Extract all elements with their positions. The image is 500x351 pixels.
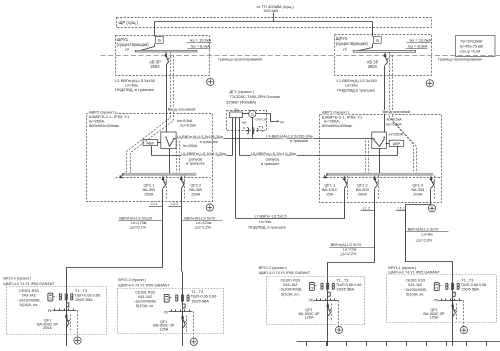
current transformers T1..T3 ВРУ2.4 [59, 293, 61, 300]
ground mark at ЩРУ2 corner [426, 80, 433, 87]
svg-text:Пi: Пi [158, 39, 162, 43]
circuit breaker QF2.1 [162, 176, 167, 188]
svg-text:ВВГнг(А)-LS 5х70: ВВГнг(А)-LS 5х70 [331, 243, 362, 247]
circuit breaker QF1 ВРУ1.1 [452, 303, 457, 317]
wire from TP down to ЩР bus [273, 13, 275, 22]
svg-text:СЕ301 R33: СЕ301 R33 [135, 290, 155, 294]
svg-text:043-JAZ: 043-JAZ [22, 294, 37, 298]
panel АВР2 dashed enclosure [87, 114, 213, 202]
ground mark at АВР2 corner [206, 204, 213, 211]
svg-text:Тр: Тр [235, 108, 239, 112]
svg-text:L2 ВВГнг(А)-LS 5х150: L2 ВВГнг(А)-LS 5х150 [115, 78, 156, 83]
svg-text:125А: 125А [305, 316, 314, 320]
svg-text:Пi: Пi [49, 296, 52, 300]
title block divider 5 [386, 342, 388, 347]
svg-text:ТШП-0,66 0,66: ТШП-0,66 0,66 [336, 283, 362, 287]
PE conductor dashed ЩРУ2 [393, 56, 417, 173]
svg-text:125А: 125А [159, 327, 168, 331]
ДГУ start wire stub left [232, 118, 234, 156]
feeder wire QF2.2 to ВРУ2.3 [182, 189, 183, 347]
ground electrode ВРУ1.1 [460, 327, 467, 334]
title block divider 6 [406, 342, 408, 347]
N conductor dashed ЩРУ2 [390, 53, 414, 173]
svg-text:25А: 25А [326, 192, 333, 197]
panel ВРУ1.1 dashed enclosure [387, 275, 497, 323]
current transformers T1..T3 ВРУ1.2 [320, 283, 322, 290]
svg-text:~3х230/400В,: ~3х230/400В, [279, 288, 303, 292]
svg-text:АВР: АВР [393, 142, 401, 146]
svg-text:250А: 250А [368, 64, 378, 69]
svg-text:5(10)А, кл.: 5(10)А, кл. [406, 292, 424, 296]
ЩР bus wire [155, 21, 373, 23]
svg-text:Пi: Пi [311, 286, 314, 290]
title block divider 2 [326, 342, 328, 347]
svg-text:5(10)А, кл.: 5(10)А, кл. [136, 304, 154, 308]
svg-text:800х600х300мм.: 800х600х300мм. [89, 123, 120, 128]
svg-text:800х600х300мм.: 800х600х300мм. [322, 123, 353, 128]
svg-text:ВВГнг(А)-LS 5х70: ВВГнг(А)-LS 5х70 [184, 217, 215, 221]
svg-text:△U=2,2%: △U=2,2% [340, 252, 357, 256]
changeover switch QS АВР1 [372, 132, 387, 149]
svg-text:ВРУ2.3 (проект.): ВРУ2.3 (проект.) [118, 278, 146, 282]
title block divider 10 [486, 342, 488, 347]
svg-text:(существующая): (существующая) [117, 42, 150, 47]
N/PE dashed bus АВР1 [323, 177, 441, 179]
PE down conductor ВРУ2.3 [193, 312, 195, 339]
generator G1 [249, 110, 256, 117]
svg-text:200А: 200А [43, 326, 52, 330]
svg-text:150/5 5ВА: 150/5 5ВА [461, 288, 479, 292]
title block divider 7 [426, 342, 428, 347]
circuit breaker QF2.2 [180, 176, 185, 188]
svg-text:Iкз=6,5кА: Iкз=6,5кА [386, 122, 402, 126]
ground mark at ЩРУ1 corner [207, 78, 214, 85]
svg-text:Ввод основной: Ввод основной [168, 107, 196, 112]
svg-text:250А: 250А [191, 192, 200, 197]
svg-text:~3х230/400В,: ~3х230/400В, [17, 298, 41, 302]
PE down conductor ВРУ1.1 [463, 301, 465, 327]
svg-text:Пi: Пi [435, 286, 438, 290]
svg-text:200А: 200А [413, 192, 422, 197]
svg-text:ЩМП-4-0 74 У1 IP65 GARANT: ЩМП-4-0 74 У1 IP65 GARANT [259, 271, 311, 275]
svg-text:L5-КВВГнг-LS 10х1,5-30м,: L5-КВВГнг-LS 10х1,5-30м, [251, 152, 297, 156]
reserve N dashed АВР1 [365, 141, 367, 173]
reserve N dashed АВР2 [176, 141, 178, 173]
feeder wire QF1.2 to ВРУ1.2 [328, 189, 375, 347]
svg-text:125А: 125А [429, 316, 438, 320]
svg-text:Iн=250А: Iн=250А [389, 131, 404, 136]
svg-text:ЩМП-4-0 74 У1 IP65 GARANT: ЩМП-4-0 74 У1 IP65 GARANT [118, 284, 170, 288]
excitation cluster [247, 128, 249, 134]
svg-text:Т1...Т3: Т1...Т3 [461, 278, 473, 282]
main switch ГР ЩРУ2 [355, 48, 373, 52]
test terminal ВРУ1.2 [328, 292, 331, 296]
svg-text:ЩМП-4-0 74 У1 IP65 GARANT: ЩМП-4-0 74 У1 IP65 GARANT [388, 271, 440, 275]
svg-text:ТЭ-328С-Т400-2РН Doosan: ТЭ-328С-Т400-2РН Doosan [230, 94, 281, 99]
svg-text:Iкз = 8,9кА: Iкз = 8,9кА [408, 43, 428, 48]
svg-text:ВВГнг(А)-LS 5х120: ВВГнг(А)-LS 5х120 [119, 217, 152, 221]
svg-text:Lн=72м: Lн=72м [343, 248, 357, 252]
switch output wire to busbar АВР1 [379, 149, 381, 174]
panel ЩРУ2 dashed enclosure [335, 35, 432, 76]
switch output wire to busbar АВР2 [169, 149, 171, 174]
meter box Пi ВРУ2.4 [48, 293, 53, 301]
svg-text:PE: PE [48, 309, 52, 313]
svg-text:L1-ВВГнг(А)-LS 5х150: L1-ВВГнг(А)-LS 5х150 [337, 78, 378, 83]
wire drop from ЩР bus to ЩРУ2 [372, 22, 374, 37]
svg-text:(существующая): (существующая) [336, 41, 369, 46]
svg-text:СЕ301 R33: СЕ301 R33 [405, 279, 425, 283]
svg-text:PE: PE [434, 299, 438, 303]
svg-text:L7-ВВГнг-LS 5х2,5: L7-ВВГнг-LS 5х2,5 [255, 215, 287, 219]
svg-text:△U=0,1%: △U=0,1% [130, 226, 147, 230]
feeder wire QF1.3 to ВРУ1.1 [406, 189, 453, 347]
meter box Пi ВРУ1.2 [309, 283, 314, 291]
N conductor dashed ЩРУ1 [127, 53, 171, 173]
svg-text:200А: 200А [358, 192, 367, 197]
svg-text:в траншее: в траншее [290, 139, 308, 143]
svg-text:Iкз=9,5кА: Iкз=9,5кА [177, 119, 193, 123]
svg-text:043-JAZ: 043-JAZ [138, 295, 153, 299]
wire АВР box to switch АВР1 [386, 143, 390, 145]
wire meter to switch ЩРУ1 [154, 44, 156, 47]
wire АВР box to start cable L5 [397, 147, 399, 156]
circuit breaker QF1.2 [374, 176, 379, 188]
svg-text:5(10)А, кл.: 5(10)А, кл. [20, 303, 38, 307]
svg-text:Lн=175м: Lн=175м [131, 221, 147, 225]
panel ВРУ2.3 dashed enclosure [118, 289, 224, 334]
svg-text:в траншее: в траншее [186, 162, 204, 166]
svg-text:043-JAZ: 043-JAZ [283, 283, 298, 287]
svg-text:ТШП-0,66 0,66: ТШП-0,66 0,66 [74, 294, 100, 298]
svg-text:ЩМП-4-0 74 У1 IP66 GARANT: ЩМП-4-0 74 У1 IP66 GARANT [3, 282, 55, 286]
svg-text:ОПН-0,66: ОПН-0,66 [255, 118, 267, 121]
circuit breaker QF1 ВРУ1.2 [327, 303, 332, 317]
svg-text:PE: PE [164, 310, 168, 314]
svg-text:Iн=250А: Iн=250А [183, 143, 198, 148]
generator output wire down [252, 118, 254, 139]
wire L7 from QF1.1 to ДГУ heater [236, 189, 345, 219]
svg-text:L1.2: L1.2 [363, 206, 370, 210]
svg-text:СЕ301 R33: СЕ301 R33 [280, 279, 300, 283]
svg-text:Т1...Т3: Т1...Т3 [191, 290, 203, 294]
test terminal ВРУ2.3 [183, 304, 186, 308]
panel ЩР (сущ.) dashed enclosure [117, 18, 432, 28]
title block top border [297, 341, 500, 343]
ДГУ dashed enclosure [227, 111, 267, 131]
ДГУ feeder wire down to L7 [235, 118, 237, 219]
svg-text:Пi: Пi [165, 298, 168, 302]
svg-text:ЩР (сущ.): ЩР (сущ.) [119, 20, 139, 25]
current transformers T1..T3 ВРУ1.1 [445, 283, 447, 290]
circuit breaker QF1 ВРУ2.4 [65, 313, 70, 327]
busbar АВР2 [122, 173, 196, 175]
svg-text:Пi: Пi [376, 39, 380, 43]
busbar АВР1 [327, 173, 434, 175]
svg-text:Iкз = 10,6кА: Iкз = 10,6кА [409, 38, 431, 43]
title block divider 1 [306, 342, 308, 347]
test terminal ВРУ2.4 [66, 303, 69, 307]
svg-text:Lн=8м: Lн=8м [422, 232, 434, 236]
busbar ЩРУ1 [136, 50, 198, 52]
АВР control box АВР1 [389, 140, 404, 146]
wire G neutral to 0V [256, 114, 277, 122]
svg-text:в траншее: в траншее [200, 140, 218, 144]
svg-text:Lн=30м.: Lн=30м. [259, 220, 272, 224]
panel ВРУ2.4 dashed enclosure [7, 287, 107, 335]
meter box Пi ВРУ1.1 [434, 283, 439, 291]
circuit breaker АВ 3Р 250А ЩРУ1 [165, 52, 170, 65]
svg-text:Ввод основной: Ввод основной [383, 109, 411, 114]
panel ВРУ1.2 dashed enclosure [267, 277, 365, 325]
panel АВР1 dashed enclosure [320, 115, 442, 203]
svg-text:△U=2,3%: △U=2,3% [416, 239, 433, 243]
title block divider 4 [366, 342, 368, 347]
wire meter to switch ЩРУ2 [372, 44, 374, 48]
svg-text:L6-КВВГнг-LS 10х1,5-30м: L6-КВВГнг-LS 10х1,5-30м [181, 152, 226, 156]
meter PI ЩРУ2 [374, 37, 382, 44]
svg-text:0V: 0V [280, 121, 285, 125]
svg-text:L3-ВВГнг(А)-LS 5х150-30м,: L3-ВВГнг(А)-LS 5х150-30м, [266, 134, 313, 138]
PE conductor dashed ЩРУ1 [131, 56, 174, 173]
svg-text:ТШП-0,66 0,66: ТШП-0,66 0,66 [461, 283, 487, 287]
svg-text:кВА: кВА [242, 122, 247, 125]
ground mark at АВР1 corner [428, 205, 435, 212]
changeover switch QS АВР2 [161, 132, 176, 149]
feeder wire QF2.1 to ВРУ2.4 [67, 189, 163, 347]
circuit breaker QF1 ВРУ2.3 [181, 315, 186, 329]
svg-text:Iкз = 10,6кА: Iкз = 10,6кА [190, 38, 212, 43]
PE down conductor ВРУ2.4 [77, 311, 79, 337]
svg-text:250А: 250А [144, 192, 153, 197]
ДГУ start wire stub right [239, 118, 241, 156]
circuit breaker QF1.3 [430, 176, 435, 188]
load summary box [456, 36, 496, 57]
svg-text:L2.1: L2.1 [151, 202, 158, 206]
svg-text:ГР: ГР [125, 48, 129, 52]
ground electrode ВРУ2.4 [74, 337, 81, 344]
svg-text:Lн=124м: Lн=124м [196, 221, 212, 225]
svg-text:Iкз=9,5кА: Iкз=9,5кА [387, 117, 403, 121]
start control wire L5 ДГУ to АВР1 [240, 155, 398, 157]
svg-text:ГР: ГР [343, 48, 347, 52]
svg-text:G: G [251, 112, 254, 116]
svg-text:ПНД/ПВД, в траншее: ПНД/ПВД, в траншее [115, 87, 155, 92]
svg-text:250/5 5ВА: 250/5 5ВА [75, 298, 93, 302]
svg-text:Рр=393,8кВт: Рр=393,8кВт [461, 40, 483, 44]
svg-text:043-JAZ: 043-JAZ [408, 283, 423, 287]
PE down conductor ВРУ1.2 [338, 301, 340, 327]
svg-text:ВВГнг(А)-LS 5х70: ВВГнг(А)-LS 5х70 [408, 228, 439, 232]
svg-text:150/5 5ВА: 150/5 5ВА [336, 288, 354, 292]
PEN arrow at busbar left end АВР1 [325, 174, 328, 178]
main feed wire ЩРУ1 to АВР2 (Ввод основной) [166, 65, 168, 133]
svg-text:10/0,4кВ: 10/0,4кВ [263, 9, 278, 13]
svg-text:PE: PE [309, 299, 313, 303]
title block divider 9 [466, 342, 468, 347]
svg-text:Т1...Т3: Т1...Т3 [336, 278, 348, 282]
meter box Пi ВРУ2.3 [164, 294, 169, 302]
meter PI ЩРУ1 [156, 37, 164, 44]
svg-text:150/5 5ВА: 150/5 5ВА [191, 299, 209, 303]
project boundary line (Граница проектирования) [101, 55, 500, 57]
svg-text:L1.1: L1.1 [398, 206, 405, 210]
АВР control box АВР2 [143, 140, 158, 146]
main feed wire ЩРУ2 to АВР1 (Ввод основной) [384, 66, 386, 133]
wire Тр to G [243, 113, 249, 115]
circuit breaker QF1.1 [343, 176, 348, 188]
svg-text:5(10)А, кл.: 5(10)А, кл. [281, 292, 299, 296]
svg-text:250А: 250А [150, 64, 160, 69]
test terminal ВРУ1.1 [453, 292, 456, 296]
title block divider 8 [446, 342, 448, 347]
svg-text:АВР: АВР [146, 141, 154, 145]
svg-text:△U=1,2%: △U=1,2% [195, 226, 212, 230]
svg-text:Iкз=6,5кА: Iкз=6,5кА [181, 124, 197, 128]
wire drop from ЩР bus to ЩРУ1 [154, 22, 156, 37]
svg-text:Iр=459,75 кВт: Iр=459,75 кВт [460, 45, 484, 49]
svg-text:L4-ВВГнг(А)-LS 5х150-30м: L4-ВВГнг(А)-LS 5х150-30м [177, 135, 224, 139]
ground electrode ВРУ2.3 [190, 338, 197, 345]
svg-text:L2.2: L2.2 [171, 202, 178, 206]
wire АВР box to switch [158, 142, 161, 144]
svg-text:cos φ =0,94: cos φ =0,94 [460, 50, 480, 54]
svg-text:Iкз = 8,9кА: Iкз = 8,9кА [191, 43, 211, 48]
svg-text:~3х230/400В,: ~3х230/400В, [403, 288, 427, 292]
wire АВР box to start cable L6 [151, 146, 153, 156]
svg-text:~3х230/400В,: ~3х230/400В, [133, 300, 157, 304]
svg-text:СЕ301 R33: СЕ301 R33 [19, 289, 39, 293]
title block divider 3 [346, 342, 348, 347]
current transformers T1..T3 ВРУ2.3 [175, 295, 177, 302]
svg-text:320кВт (400кВА): 320кВт (400кВА) [226, 100, 257, 105]
main switch ГР ЩРУ1 [137, 47, 155, 52]
svg-text:ВРУ2.4 (проект.): ВРУ2.4 (проект.) [3, 277, 31, 281]
panel ЩРУ1 dashed enclosure [116, 36, 210, 76]
svg-text:ВРУ1.1 (проект.): ВРУ1.1 (проект.) [388, 266, 416, 270]
ground electrode ВРУ1.2 [335, 326, 342, 333]
start control wire L6 АВР2 to ДГУ [152, 155, 233, 157]
svg-text:Граница проектирования: Граница проектирования [438, 57, 482, 61]
PEN arrow at busbar left end АВР2 [120, 174, 123, 178]
svg-text:ПНД/ПВД, в траншее: ПНД/ПВД, в траншее [249, 225, 286, 229]
reserve power wire L4/L3 from generator to АВР2 and АВР1 [174, 138, 374, 140]
circuit breaker АВ 3Р 250А ЩРУ2 [384, 53, 389, 66]
svg-text:Граница проектирования: Граница проектирования [218, 57, 262, 61]
busbar ЩРУ2 [353, 51, 416, 53]
N/PE dashed bus АВР2 [116, 177, 211, 179]
svg-text:ПНД/ПВД,в траншее: ПНД/ПВД,в траншее [337, 87, 376, 92]
svg-text:ВРУ1.2 (проект.): ВРУ1.2 (проект.) [259, 266, 287, 270]
svg-text:в траншее: в траншее [261, 162, 279, 166]
svg-text:ТШП-0,66 0,66: ТШП-0,66 0,66 [191, 295, 217, 299]
svg-text:Т1...Т3: Т1...Т3 [75, 289, 87, 293]
